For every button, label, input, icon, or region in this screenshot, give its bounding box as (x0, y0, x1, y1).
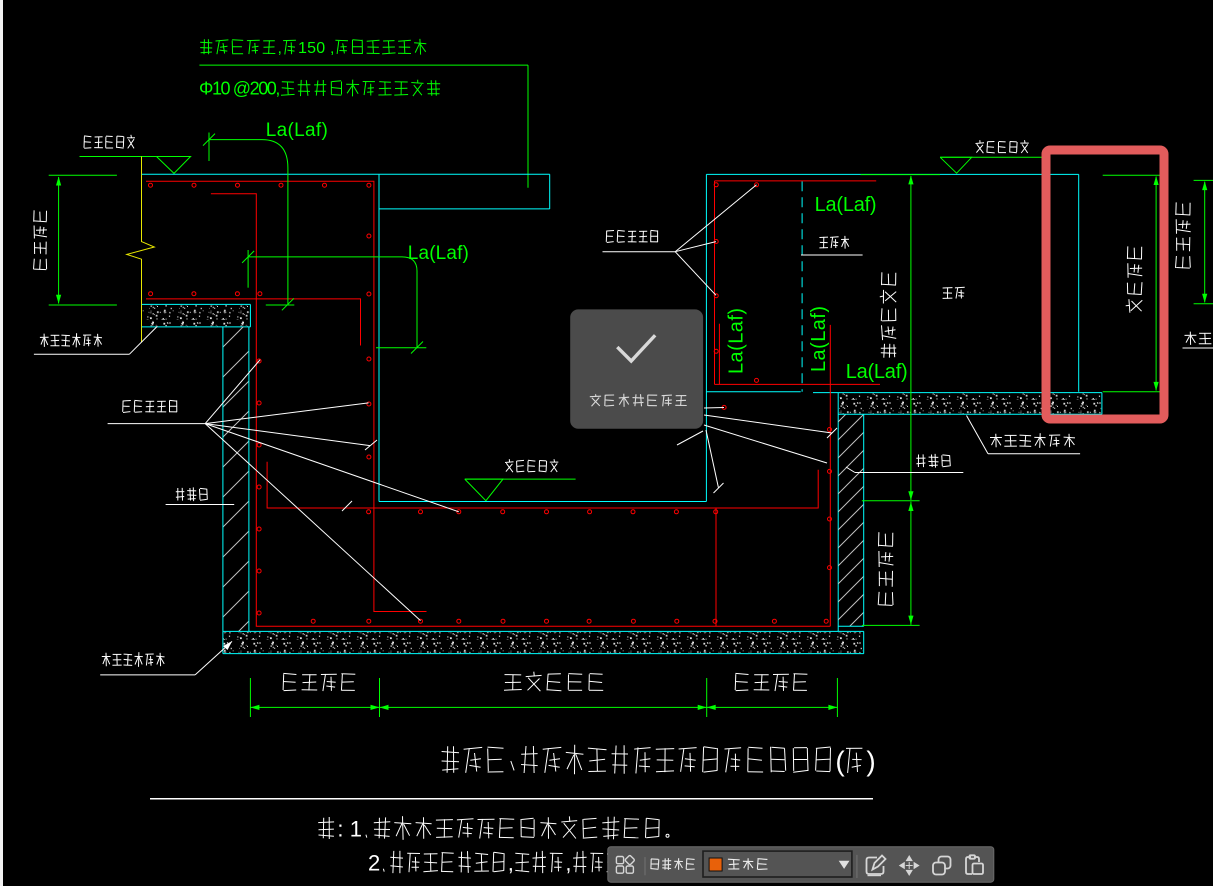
pit right inner wall (705, 174, 707, 501)
label 承台 (943, 287, 965, 298)
dropdown label 未分类 (728, 858, 768, 870)
window left edge strip (0, 0, 3, 886)
note line 1 (318, 816, 669, 841)
label La(Laf) rotated 1 (726, 308, 748, 374)
label 素混凝土垫层 upper left (40, 333, 102, 347)
rebar: right box top (715, 180, 877, 182)
title underline (150, 798, 873, 800)
right box bottom (706, 391, 800, 393)
tooltip checkmark (619, 337, 655, 362)
pit bottom slab underside (223, 630, 864, 632)
label 素混凝土垫层 lower left (102, 652, 165, 667)
svg-text:,: , (508, 851, 514, 876)
svg-text:(: ( (835, 746, 845, 777)
rebar dots: right wall column (828, 428, 832, 570)
rotated text 基础厚度 (1126, 246, 1143, 312)
pile cap edge dashed line 承台边 (801, 181, 803, 391)
rebar: pit bottom (256, 625, 831, 627)
bottom dim extension ticks (249, 678, 251, 717)
toolbar icon copy (933, 857, 951, 875)
dim extension green top right (861, 174, 941, 176)
hidden fan leaders from behind tooltip (704, 415, 832, 433)
elevation label 基础面标高 (976, 140, 1029, 153)
rebar dots: slab bottom row (149, 292, 262, 296)
elevation label 底板面标高 (84, 135, 135, 149)
yellow section break line (127, 157, 155, 343)
svg-text:La(Laf): La(Laf) (726, 308, 748, 374)
svg-text:La(Laf): La(Laf) (846, 361, 908, 383)
elevation triangle left (157, 157, 191, 174)
elevation label 基坑底标高 (505, 459, 558, 472)
rebar dots: floor row (367, 510, 718, 514)
toolbar label 标注分类 (651, 858, 695, 870)
tooltip toast 已添加到剪贴板 (570, 309, 703, 428)
left bedding stipple band (143, 305, 250, 326)
rebar: right box left vertical (714, 181, 716, 385)
dim 底板厚度 left: rotated text (34, 210, 48, 269)
elevation line pit bottom (465, 478, 576, 480)
bottom dim text 详基础平面 (504, 672, 603, 691)
rebar: box anchor short vertical (718, 324, 720, 385)
bottom dim text 底板厚度 left (283, 673, 355, 691)
pit left inner wall (378, 174, 380, 501)
label 同底板板筋 right + fan (606, 230, 658, 242)
label 砖胎模 right (916, 454, 950, 468)
left slab top surface (142, 173, 550, 175)
dim 底板厚度 right wall line (910, 502, 912, 625)
toolbar dropdown box (703, 851, 852, 877)
svg-text:150 ,: 150 , (298, 40, 335, 57)
rebar dots: outer wall column (257, 359, 261, 615)
leader 2 La(Laf) (247, 250, 249, 288)
rebar dots: slab top row (149, 183, 371, 187)
rotated text 底板厚度 far right (1176, 202, 1191, 268)
dropdown caret (839, 861, 850, 869)
svg-text:La(Laf): La(Laf) (408, 243, 469, 264)
rotated text 底板厚度 right wall (878, 532, 893, 605)
right structure top surface (706, 173, 1078, 175)
tooltip text (590, 394, 687, 407)
dim 集水井高度 line (910, 176, 912, 500)
rebar: right box bottom (715, 383, 881, 385)
left slab bottom (142, 303, 251, 305)
rebar dots: box left column (714, 183, 758, 410)
green note leader vertical into cover slab (527, 65, 529, 188)
dim 底板厚度 left: dimension line (58, 177, 60, 304)
rebar: slab top + inner wall L (146, 181, 427, 611)
green note text line 1 (200, 39, 426, 57)
svg-text:): ) (866, 746, 875, 777)
label 砖胎模 left (176, 487, 208, 501)
toolbar icon edit (867, 856, 886, 876)
left brick formwork hatch band (223, 327, 249, 632)
dim tick at pit floor right (862, 500, 920, 502)
green note text line 2 (199, 79, 440, 99)
dim 底板厚度 far right line (1204, 182, 1206, 303)
dim tick at pit underside right (862, 624, 920, 626)
dim 底板厚度 left: extension lines (49, 174, 117, 176)
elevation line left (80, 156, 191, 158)
right structure right face (1078, 174, 1080, 391)
dropdown color swatch (709, 858, 722, 871)
dim 底板厚度 far right ticks (1194, 179, 1213, 181)
bottom dim line (250, 706, 837, 708)
rebar: slab bottom with downturn (146, 299, 361, 346)
drawing title (442, 745, 876, 777)
rebar: pit floor with upturns (267, 462, 818, 508)
note line 2 (368, 851, 621, 876)
elevation triangle right (940, 157, 972, 173)
dim 基础厚度 line (1155, 177, 1157, 391)
svg-text:La(Laf): La(Laf) (266, 120, 328, 141)
toolbar icon grid/categories (616, 855, 634, 873)
rebar dots: inner wall column (367, 234, 371, 459)
svg-text:,: , (565, 851, 571, 876)
rebar: floor downturn at right wall (715, 508, 717, 626)
elevation triangle pit bottom (465, 479, 503, 501)
cover slab step vertical (549, 174, 551, 209)
label 素混凝土垫层 right (990, 433, 1075, 448)
pit floor (379, 501, 706, 503)
label 同底板板筋 left + fan (123, 400, 177, 412)
svg-text:Φ10 @200,: Φ10 @200, (199, 79, 280, 99)
red highlight marker rectangle (1046, 150, 1164, 419)
toolbar icon move (900, 856, 919, 875)
bottom toolbar background (608, 847, 994, 883)
svg-text:,: , (278, 40, 282, 57)
cover slab ledge bottom (379, 208, 550, 210)
svg-text:La(Laf): La(Laf) (808, 306, 830, 372)
svg-text::1: :1 (337, 817, 362, 842)
rotated text 集水井高度 (880, 272, 896, 357)
dim 基础厚度 extension ticks (1103, 174, 1162, 176)
pit bottom bedding stipple band (224, 632, 863, 653)
elevation line right (940, 156, 1047, 158)
svg-text:2: 2 (368, 851, 380, 876)
bottom dim text 底板厚度 right (735, 673, 807, 691)
green note leader underline (199, 64, 528, 66)
rebar dots: bottom row (311, 619, 828, 623)
label 承台边 (819, 236, 849, 249)
toolbar icon paste (966, 855, 983, 874)
right wall outer face (837, 393, 839, 632)
toolbar separator 2 (856, 855, 858, 878)
label La(Laf) rotated 2 (808, 306, 830, 372)
toolbar separator 1 (644, 857, 646, 875)
right bedding stipple band under pile cap (813, 392, 1102, 394)
svg-text:La(Laf): La(Laf) (815, 194, 877, 216)
label 素混凝土垫层 far right clipped (1185, 332, 1213, 345)
rebar: outer wall stub + vertical (211, 194, 256, 627)
right brick formwork hatch band (838, 414, 864, 626)
rebar: right wall vertical (829, 325, 831, 626)
leader 1 La(Laf) (208, 133, 210, 162)
